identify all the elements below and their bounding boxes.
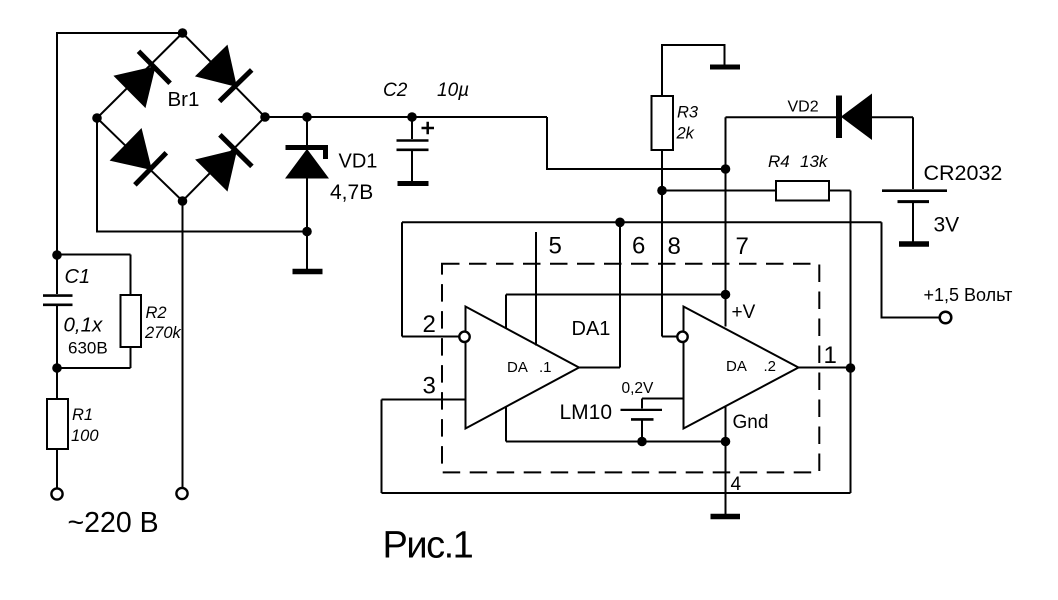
resistor R3 body xyxy=(652,96,674,150)
pin 5 stub xyxy=(535,232,537,346)
diode D3 (left node to bottom node) triangle xyxy=(112,130,151,169)
capacitor C1 plates xyxy=(43,296,73,305)
op-amp DA1.2 inverting input circle xyxy=(677,332,687,342)
diode D4 (bottom node to right node) triangle xyxy=(197,151,236,190)
svg-text:R2: R2 xyxy=(146,304,167,322)
battery CR2032 bottom wire xyxy=(912,203,914,242)
wire bridge left node down and right to VD1 anode node xyxy=(97,118,307,232)
svg-text:2: 2 xyxy=(423,311,436,338)
svg-text:3V: 3V xyxy=(934,214,960,237)
diode D2 cathode bar xyxy=(220,70,252,101)
junction node C1 top xyxy=(52,250,62,260)
junction node bridge left xyxy=(92,113,102,123)
diode D4 cathode bar xyxy=(220,135,252,167)
ground bar below VD1 xyxy=(293,269,323,275)
svg-text:10µ: 10µ xyxy=(437,80,469,101)
pin 7 vertical line xyxy=(725,117,727,326)
svg-text:Gnd: Gnd xyxy=(733,412,769,433)
svg-text:4: 4 xyxy=(731,474,742,495)
zener diode VD1 cathode bar with hook xyxy=(286,148,329,160)
svg-text:100: 100 xyxy=(71,427,99,445)
capacitor C1 bottom wire xyxy=(56,306,58,368)
resistor R2 body xyxy=(121,295,142,347)
bridge Br1 diamond edges xyxy=(97,33,265,201)
wire VD2 anode from pin7 corner xyxy=(726,116,837,118)
+V supply wire from pin7 to DA1.1 top edge xyxy=(506,295,726,329)
junction node bridge right xyxy=(260,112,270,122)
terminal circle AC right xyxy=(176,488,187,499)
svg-text:6: 6 xyxy=(632,233,645,260)
pin 1 output wire of DA1.2 xyxy=(799,367,851,369)
svg-text:+V: +V xyxy=(732,302,756,323)
resistor R1 body xyxy=(47,399,68,449)
svg-text:Br1: Br1 xyxy=(168,88,200,111)
junction node Gnd pin4 xyxy=(721,437,731,447)
op-amp DA1.1 inverting input circle xyxy=(459,332,469,342)
svg-text:3: 3 xyxy=(423,373,436,400)
svg-text:DA1: DA1 xyxy=(572,318,611,340)
svg-text:VD1: VD1 xyxy=(339,151,378,173)
zener diode VD1 top wire xyxy=(306,117,308,145)
wire R1 bottom to AC terminal xyxy=(56,449,58,489)
junction node VD1 anode xyxy=(302,227,312,237)
diode D1 cathode bar xyxy=(139,51,171,83)
diode D3 cathode bar xyxy=(135,153,166,185)
wire left drop from top wire down to C1 node xyxy=(56,32,58,255)
svg-text:4,7В: 4,7В xyxy=(330,181,373,204)
svg-text:5: 5 xyxy=(549,233,562,260)
junction node C2 top xyxy=(407,112,417,122)
junction node pin6 output net xyxy=(615,218,625,228)
ground bar above right of R3 xyxy=(710,65,740,70)
svg-text:R1: R1 xyxy=(72,406,93,424)
zener diode VD1 triangle xyxy=(287,151,327,178)
svg-text:LM10: LM10 xyxy=(560,401,613,424)
junction node bridge top xyxy=(178,28,188,38)
junction node R3-R4 pin8 xyxy=(657,186,667,196)
internal ground wire with stubs to DA1.1 and DA1.2 xyxy=(506,407,726,442)
svg-text:0,2V: 0,2V xyxy=(622,380,655,397)
svg-text:7: 7 xyxy=(736,233,749,260)
svg-text:C2: C2 xyxy=(383,80,408,101)
wire R4 right then down to pin1 and bottom wire xyxy=(829,191,851,494)
diode VD2 cathode bar xyxy=(836,96,842,139)
capacitor C2 plus sign xyxy=(422,122,435,134)
svg-text:DA: DA xyxy=(507,359,528,376)
zener diode VD1 bottom wire xyxy=(306,178,308,270)
svg-text:VD2: VD2 xyxy=(788,99,819,116)
svg-text:R4: R4 xyxy=(768,152,790,171)
wire C1 node to R2 top xyxy=(57,255,131,296)
resistor R3 top wire to ground xyxy=(662,45,725,96)
battery CR2032 plates xyxy=(882,189,947,192)
ground bar below C2 xyxy=(398,181,429,186)
junction node C1 bottom xyxy=(52,363,62,373)
svg-text:1: 1 xyxy=(824,342,837,369)
svg-text:0,1x: 0,1x xyxy=(64,314,103,337)
wire C2 node right, down, right to pin7 node xyxy=(547,117,726,169)
capacitor C1 top wire xyxy=(56,255,58,294)
junction node +V pin7 xyxy=(721,290,731,300)
svg-text:R3: R3 xyxy=(677,104,699,122)
ground bar below battery xyxy=(899,241,929,246)
wire output net: feedback left corner, across top of IC, to +1,5V terminal xyxy=(402,222,940,336)
svg-text:C1: C1 xyxy=(65,266,91,288)
pin 4 wire down to ground xyxy=(725,442,727,515)
svg-text:CR2032: CR2032 xyxy=(924,161,1003,185)
svg-text:8: 8 xyxy=(668,233,681,260)
diode D1 (left node to top node) triangle xyxy=(115,67,154,106)
op-amp DA1.2 triangle xyxy=(684,307,799,429)
svg-text:13k: 13k xyxy=(800,152,829,171)
ground bar below pin 4 xyxy=(711,514,741,520)
svg-text:630В: 630В xyxy=(68,339,108,358)
op-amp DA1.1 triangle xyxy=(466,307,580,429)
junction node C2 wire to pin7 xyxy=(721,164,731,174)
diode VD2 triangle xyxy=(843,96,872,139)
wire R3 bottom / pin 8 down to DA1.2 inverting input xyxy=(662,150,678,337)
svg-text:~220 В: ~220 В xyxy=(68,507,159,539)
wire AC-top horizontal from C1 branch to bridge top node xyxy=(57,32,183,34)
svg-text:.1: .1 xyxy=(539,359,552,376)
wire R2 bottom to lower node xyxy=(57,347,131,368)
reference battery 0,2V wires xyxy=(642,399,684,409)
reference battery 0,2V bottom wire xyxy=(641,421,643,442)
wire R4 left from R3 node xyxy=(662,190,776,192)
svg-text:Рис.1: Рис.1 xyxy=(383,525,473,567)
wire bridge right node to C2 corner xyxy=(265,116,547,118)
wire lower node to R1 xyxy=(56,368,58,399)
wire bridge bottom node down to AC terminal xyxy=(182,201,184,488)
svg-text:2k: 2k xyxy=(676,125,695,143)
capacitor C2 plates xyxy=(397,141,429,150)
junction node 0,2V ground xyxy=(637,437,647,447)
dashed IC boundary box DA1 xyxy=(442,264,819,473)
svg-text:270k: 270k xyxy=(144,324,182,342)
svg-text:DA: DA xyxy=(726,358,747,375)
terminal circle +1,5 V output xyxy=(940,312,952,324)
svg-text:+1,5 Вольт: +1,5 Вольт xyxy=(924,285,1013,305)
pin 6 wire from DA1.1 output up to output net xyxy=(579,222,620,367)
junction node VD1 top xyxy=(302,112,312,122)
junction node bridge bottom xyxy=(178,196,188,206)
capacitor C2 bottom wire xyxy=(411,151,413,182)
wire VD2 to battery xyxy=(871,117,913,189)
reference battery 0,2V plates xyxy=(621,409,663,411)
capacitor C2 top wire xyxy=(411,117,413,139)
pin 3 wire left corner and bottom feedback wire xyxy=(382,400,851,494)
svg-text:.2: .2 xyxy=(764,358,777,375)
junction node pin1 output xyxy=(846,363,856,373)
resistor R4 body xyxy=(776,181,829,201)
diode D2 (top node to right node) triangle xyxy=(197,47,236,86)
terminal circle AC left xyxy=(51,488,62,499)
